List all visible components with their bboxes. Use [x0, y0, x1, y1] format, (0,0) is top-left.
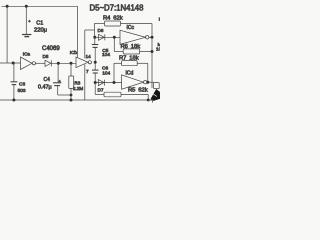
svg-text:D5~D7:1N4148: D5~D7:1N4148 [90, 3, 144, 12]
node C6 bottom / D7 [94, 81, 97, 84]
wire top rail right drop to ICb supply [77, 6, 79, 57]
svg-text:C4: C4 [44, 77, 51, 83]
svg-text:C4069: C4069 [42, 46, 60, 52]
diode D7 [98, 80, 105, 93]
wire bottom rail [0, 99, 152, 101]
resistor R5 62k [95, 83, 148, 101]
node ICb out [94, 61, 97, 64]
node C4 top [57, 62, 60, 65]
svg-text:C1: C1 [36, 21, 43, 27]
capacitor C5 [92, 37, 111, 62]
capacitor C3 [11, 63, 26, 100]
svg-text:0.47μ: 0.47μ [38, 84, 52, 90]
capacitor C4 [38, 63, 61, 95]
wire top V+ rail [2, 5, 78, 7]
node R5 right bottom [147, 99, 150, 102]
node R6 left top [113, 36, 116, 39]
svg-text:1C: 1C [156, 46, 160, 51]
svg-text:104: 104 [102, 52, 110, 58]
node C4/R3 join [70, 94, 73, 97]
node ICa input feedback [12, 62, 15, 65]
svg-text:+: + [59, 80, 61, 84]
svg-text:104: 104 [102, 70, 110, 76]
node top rail left [6, 5, 9, 8]
wire ICd input [95, 82, 121, 84]
node bottom R3 [70, 99, 73, 102]
svg-text:R4 62k: R4 62k [103, 15, 123, 21]
label cut glyph at right edge [158, 17, 160, 21]
resistor R4 62k [94, 15, 152, 37]
piezo sounder disc [151, 89, 160, 100]
svg-text:14: 14 [86, 54, 92, 59]
pin 14 ICb Vdd [85, 30, 91, 59]
svg-text:R3: R3 [74, 80, 80, 85]
node top rail C1 [25, 5, 28, 8]
svg-text:ICc: ICc [127, 25, 135, 31]
svg-text:503: 503 [18, 88, 26, 94]
svg-text:D5: D5 [43, 54, 49, 59]
resistor R6 18k [114, 37, 152, 54]
op-amp U1 inverter ICb [70, 50, 92, 67]
svg-text:220μ: 220μ [34, 28, 47, 34]
svg-text:R5 62k: R5 62k [128, 87, 148, 93]
svg-text:ICa: ICa [23, 52, 31, 57]
node ICd out [146, 81, 149, 84]
capacitor C6 [92, 62, 111, 82]
node R6 right [151, 50, 154, 53]
wire C4 bottom jog [58, 94, 71, 96]
wire D5 to ICb [51, 62, 76, 64]
diode D5 [43, 54, 52, 66]
resistor R7 18k [114, 55, 148, 82]
wire input wire to ICa [0, 62, 21, 64]
svg-text:C3: C3 [19, 81, 25, 87]
svg-text:ICd: ICd [126, 71, 134, 77]
svg-text:2.2M: 2.2M [73, 86, 83, 91]
wire jog supply to pin14 [85, 29, 95, 31]
wire right vertical [151, 37, 153, 88]
node ICc out [151, 36, 154, 39]
node bottom C3 [12, 99, 15, 102]
pin 7 ICb Vss [85, 64, 89, 100]
svg-text:ICb: ICb [70, 50, 78, 55]
wire left vertical from top rail [6, 6, 8, 63]
diode D6 [95, 28, 120, 40]
node R7 bottom [113, 81, 116, 84]
piezo sounder box [154, 83, 160, 89]
svg-text:7: 7 [86, 69, 89, 74]
op-amp U1 inverter ICc [120, 25, 152, 45]
svg-text:D7: D7 [98, 88, 104, 93]
resistor R3 2.2M [69, 63, 84, 100]
capacitor C1 [22, 6, 47, 36]
node R3 top [70, 62, 73, 65]
op-amp U1 inverter ICd [122, 71, 154, 90]
node D6 anode / C5 [93, 36, 96, 39]
op-amp U1 inverter ICa [21, 52, 36, 70]
svg-text:D6: D6 [98, 28, 104, 33]
wire ICa out [36, 62, 46, 64]
